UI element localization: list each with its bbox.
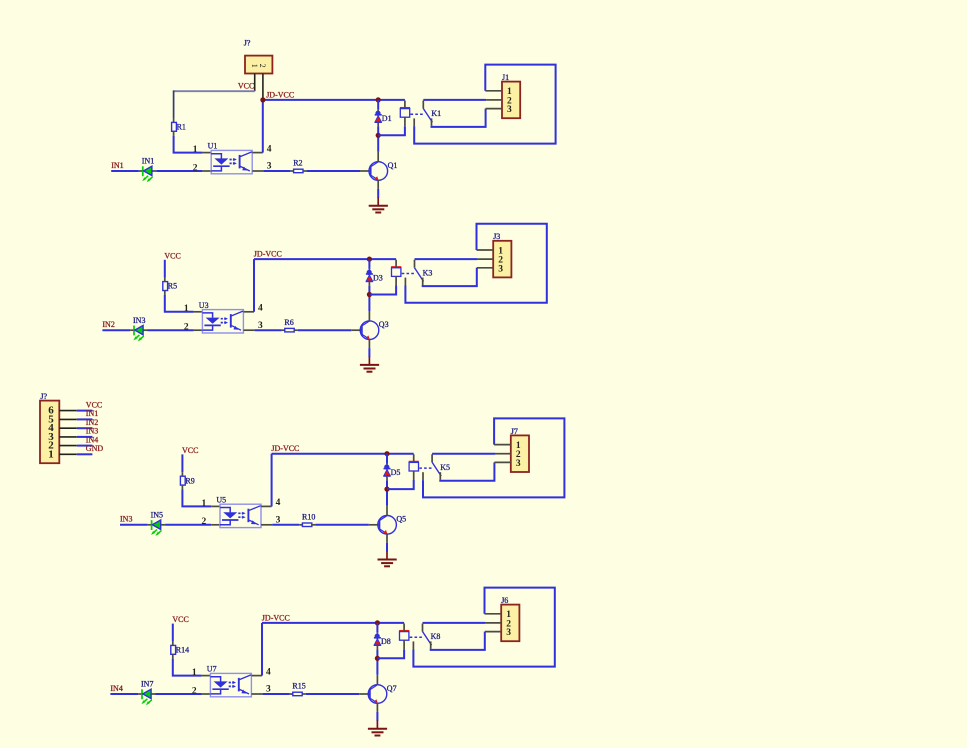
transistor Q5 bbox=[369, 506, 397, 543]
svg-text:R10: R10 bbox=[302, 513, 315, 522]
svg-text:IN3: IN3 bbox=[86, 427, 98, 436]
svg-text:1: 1 bbox=[48, 448, 54, 460]
relay K5 coil bbox=[409, 454, 419, 480]
U pin 2 stub bbox=[194, 329, 203, 331]
relay K1 switch bbox=[414, 101, 432, 127]
svg-text:1: 1 bbox=[250, 64, 259, 68]
svg-text:D1: D1 bbox=[382, 114, 392, 123]
wire IN1 input stub bbox=[111, 170, 139, 172]
ground bbox=[368, 720, 387, 735]
svg-text:D3: D3 bbox=[373, 273, 383, 282]
diode D8 bbox=[374, 623, 381, 658]
connector J3 pin 3 stub bbox=[477, 267, 493, 269]
connector J7 pin 3 stub bbox=[494, 461, 510, 463]
svg-text:J?: J? bbox=[244, 39, 251, 48]
wire VCC vertical to R bbox=[173, 90, 175, 118]
ground bbox=[360, 357, 379, 372]
wire VCC horizontal bbox=[174, 90, 255, 92]
wire pin3 to R10 bbox=[272, 524, 299, 526]
wire Q1 emitter bbox=[377, 189, 379, 198]
wire JD-VCC vertical from pin4 bbox=[262, 100, 264, 153]
svg-text:2: 2 bbox=[202, 517, 207, 527]
svg-text:K1: K1 bbox=[431, 109, 441, 118]
wire pin3 to R15 bbox=[263, 693, 290, 695]
relay K3 coil bbox=[391, 260, 401, 286]
svg-text:K3: K3 bbox=[423, 268, 433, 277]
svg-text:3: 3 bbox=[506, 628, 511, 638]
connector J? 6-pin input header bbox=[40, 401, 59, 464]
wire relay NO contact to J1 pin3 bbox=[432, 109, 486, 127]
LED IN5 bbox=[148, 520, 165, 536]
wire coil return bbox=[387, 480, 414, 489]
svg-text:J7: J7 bbox=[511, 427, 518, 436]
connector J6 bbox=[501, 605, 519, 642]
wire R9 to pin1 bbox=[182, 489, 211, 506]
wire net IN1 stub bbox=[77, 418, 93, 420]
jumper J? pin 1 lead bbox=[254, 74, 256, 92]
wire relay NC contact loop to J7 pin1 bbox=[423, 418, 564, 497]
wire IN4 input stub bbox=[110, 693, 138, 695]
wire R15 to Q7 base bbox=[306, 693, 359, 695]
svg-text:D8: D8 bbox=[381, 637, 391, 646]
svg-text:K5: K5 bbox=[440, 463, 450, 472]
wire Q7 collector bbox=[376, 658, 378, 675]
wire JD-VCC rail bbox=[254, 258, 396, 260]
connector J7 pin 2 stub bbox=[495, 453, 511, 455]
wire R14 to pin1 bbox=[173, 659, 202, 676]
wire relay NO contact to J7 pin3 bbox=[440, 462, 494, 480]
wire relay NC contact loop to J3 pin1 bbox=[405, 224, 546, 303]
wire VCC stub to R bbox=[164, 260, 166, 278]
wire net GND stub bbox=[77, 453, 93, 455]
svg-text:VCC: VCC bbox=[238, 81, 254, 90]
svg-text:IN1: IN1 bbox=[111, 161, 123, 170]
wire JD-VCC rail bbox=[263, 99, 405, 101]
svg-text:JD-VCC: JD-VCC bbox=[254, 250, 282, 259]
wire IN2 to optocoupler pin2 bbox=[148, 329, 194, 331]
relay K3 switch bbox=[405, 260, 423, 286]
svg-text:R2: R2 bbox=[293, 159, 302, 168]
jumper J? 2-pin header bbox=[245, 56, 272, 74]
svg-text:4: 4 bbox=[266, 667, 271, 677]
wire coil return bbox=[378, 126, 405, 135]
diode D5 bbox=[383, 454, 390, 489]
svg-text:K8: K8 bbox=[431, 632, 441, 641]
wire R5 to pin1 bbox=[165, 295, 194, 312]
svg-text:2: 2 bbox=[258, 64, 267, 68]
wire Q3 collector bbox=[368, 295, 370, 312]
connector J1 pin 1 stub bbox=[485, 90, 502, 92]
resistor R6 bbox=[282, 328, 298, 332]
wire relay NC contact loop to J6 pin1 bbox=[413, 588, 554, 667]
U pin 4 stub bbox=[252, 675, 263, 677]
svg-text:U5: U5 bbox=[216, 496, 226, 505]
wire pin3 to R6 bbox=[255, 329, 282, 331]
svg-text:IN4: IN4 bbox=[110, 684, 122, 693]
connector J? pin 1 lead bbox=[59, 453, 77, 455]
resistor R5 bbox=[163, 278, 168, 295]
wire relay NC contact loop to J1 pin1 bbox=[414, 65, 555, 144]
wire IN3 to optocoupler pin2 bbox=[165, 524, 211, 526]
optocoupler U3 bbox=[202, 310, 243, 333]
svg-text:IN5: IN5 bbox=[151, 510, 163, 519]
connector J3 pin 2 stub bbox=[477, 258, 493, 260]
svg-text:2: 2 bbox=[192, 686, 197, 696]
optocoupler U5 bbox=[220, 504, 261, 527]
svg-text:3: 3 bbox=[507, 105, 512, 115]
wire JD-VCC vertical from pin4 bbox=[253, 259, 255, 312]
svg-text:JD-VCC: JD-VCC bbox=[271, 444, 299, 453]
connector J3 pin 1 stub bbox=[477, 249, 494, 251]
op-to U pin 1 stub bbox=[194, 311, 203, 313]
op-to U pin 1 stub bbox=[202, 675, 211, 677]
wire coil return bbox=[369, 285, 396, 294]
connector J? pin 5 lead bbox=[59, 418, 77, 420]
svg-text:Q3: Q3 bbox=[379, 320, 389, 329]
svg-text:1: 1 bbox=[202, 499, 207, 509]
node junction JD-VCC / D5 cathode bbox=[384, 451, 389, 456]
U pin 2 stub bbox=[202, 170, 211, 172]
svg-text:R6: R6 bbox=[284, 318, 293, 327]
svg-text:GND: GND bbox=[86, 444, 104, 453]
svg-text:J?: J? bbox=[40, 392, 47, 401]
wire IN4 to optocoupler pin2 bbox=[156, 693, 202, 695]
svg-text:IN3: IN3 bbox=[120, 515, 132, 524]
svg-text:IN2: IN2 bbox=[86, 418, 98, 427]
node junction JD-VCC / D3 cathode bbox=[367, 257, 372, 262]
svg-text:U1: U1 bbox=[208, 142, 218, 151]
wire JD-VCC vertical from pin4 bbox=[271, 454, 273, 507]
wire IN2 input stub bbox=[102, 329, 130, 331]
resistor R14 bbox=[171, 641, 176, 658]
wire Q7 emitter bbox=[376, 712, 378, 721]
wire relay common to J3 pin2 bbox=[415, 258, 478, 260]
svg-text:VCC: VCC bbox=[182, 446, 198, 455]
wire net IN2 stub bbox=[77, 427, 93, 429]
svg-text:1: 1 bbox=[193, 145, 198, 155]
relay K8 coil bbox=[399, 624, 409, 650]
node junction D5 anode / coil bbox=[384, 487, 389, 492]
ground bbox=[369, 197, 388, 212]
relay K5 switch bbox=[423, 454, 441, 480]
wire VCC stub to R bbox=[172, 624, 174, 642]
svg-text:R15: R15 bbox=[292, 682, 305, 691]
wire JD-VCC rail bbox=[262, 622, 404, 624]
U pin 4 stub bbox=[252, 152, 262, 154]
wire net VCC stub bbox=[77, 410, 93, 412]
svg-text:VCC: VCC bbox=[164, 251, 180, 260]
U pin 3 stub bbox=[261, 524, 272, 526]
wire R10 to Q5 base bbox=[315, 524, 368, 526]
ground bbox=[378, 551, 397, 566]
transistor Q3 bbox=[351, 311, 379, 348]
svg-text:2: 2 bbox=[184, 323, 189, 333]
svg-text:U7: U7 bbox=[207, 665, 217, 674]
svg-text:R14: R14 bbox=[176, 646, 189, 655]
wire Q1 collector bbox=[377, 135, 379, 152]
svg-text:U3: U3 bbox=[199, 301, 209, 310]
connector J6 pin 3 stub bbox=[485, 631, 501, 633]
svg-text:VCC: VCC bbox=[172, 615, 188, 624]
svg-text:2: 2 bbox=[193, 163, 198, 173]
node junction D8 anode / coil bbox=[375, 656, 380, 661]
wire Q5 emitter bbox=[386, 543, 388, 552]
connector J? pin 6 lead bbox=[59, 410, 77, 412]
connector J7 bbox=[511, 435, 529, 472]
svg-text:J3: J3 bbox=[493, 232, 500, 241]
svg-text:IN3: IN3 bbox=[133, 316, 145, 325]
U pin 3 stub bbox=[244, 329, 255, 331]
connector J7 pin 1 stub bbox=[494, 444, 511, 446]
relay K8 actuator dashed link bbox=[410, 636, 423, 638]
LED IN1 bbox=[139, 166, 156, 182]
connector J1 bbox=[502, 82, 520, 119]
wire relay NO contact to J6 pin3 bbox=[431, 632, 485, 650]
svg-text:R5: R5 bbox=[168, 282, 177, 291]
jumper J? pin 2 lead bbox=[262, 74, 264, 98]
relay K3 actuator dashed link bbox=[402, 273, 415, 275]
connector J1 pin 2 stub bbox=[486, 99, 502, 101]
U pin 3 stub bbox=[252, 170, 263, 172]
resistor R2 bbox=[290, 169, 306, 173]
svg-text:J1: J1 bbox=[502, 73, 509, 82]
wire net IN4 stub bbox=[77, 445, 93, 447]
connector J? pin 2 lead bbox=[59, 445, 77, 447]
connector J? pin 3 lead bbox=[59, 436, 77, 438]
svg-text:D5: D5 bbox=[391, 468, 401, 477]
relay K8 switch bbox=[413, 624, 431, 650]
svg-text:R1: R1 bbox=[177, 123, 186, 132]
op-to U pin 1 stub bbox=[202, 152, 211, 154]
node junction JD-VCC tee bbox=[260, 97, 265, 102]
svg-text:Q5: Q5 bbox=[396, 515, 406, 524]
connector J1 pin 3 stub bbox=[486, 108, 502, 110]
wire IN3 input stub bbox=[120, 524, 148, 526]
wire relay common to J7 pin2 bbox=[432, 453, 495, 455]
diode D1 bbox=[375, 100, 382, 135]
node junction JD-VCC / D1 cathode bbox=[376, 97, 381, 102]
svg-text:IN1: IN1 bbox=[86, 409, 98, 418]
svg-text:1: 1 bbox=[184, 304, 189, 314]
svg-text:4: 4 bbox=[258, 304, 263, 314]
wire relay NO contact to J3 pin3 bbox=[423, 268, 477, 286]
wire pin3 to R2 bbox=[263, 170, 290, 172]
wire R1 to pin1 bbox=[174, 136, 203, 153]
relay K1 coil bbox=[400, 101, 410, 127]
U pin 4 stub bbox=[261, 505, 272, 507]
svg-text:Q7: Q7 bbox=[387, 684, 397, 693]
svg-text:Q1: Q1 bbox=[388, 161, 398, 170]
relay K5 actuator dashed link bbox=[419, 467, 432, 469]
svg-text:J6: J6 bbox=[501, 596, 508, 605]
svg-text:JD-VCC: JD-VCC bbox=[266, 90, 294, 99]
optocoupler U7 bbox=[210, 673, 251, 696]
resistor R1 bbox=[172, 118, 177, 135]
U pin 2 stub bbox=[211, 524, 220, 526]
resistor R9 bbox=[180, 472, 185, 489]
wire Q5 collector bbox=[386, 489, 388, 506]
svg-text:JD-VCC: JD-VCC bbox=[262, 613, 290, 622]
optocoupler U1 bbox=[211, 150, 252, 173]
wire net IN3 stub bbox=[77, 436, 93, 438]
svg-text:IN2: IN2 bbox=[102, 320, 114, 329]
wire relay common to J6 pin2 bbox=[423, 622, 486, 624]
svg-text:4: 4 bbox=[276, 498, 281, 508]
wire JD-VCC vertical from pin4 bbox=[261, 623, 263, 676]
node junction D3 anode / coil bbox=[367, 292, 372, 297]
connector J3 bbox=[493, 241, 511, 278]
relay K1 actuator dashed link bbox=[411, 113, 424, 115]
connector J6 pin 1 stub bbox=[485, 613, 502, 615]
wire coil return bbox=[377, 649, 404, 658]
svg-text:1: 1 bbox=[192, 668, 197, 678]
diode D3 bbox=[366, 259, 373, 294]
wire Q3 emitter bbox=[368, 348, 370, 357]
resistor R15 bbox=[290, 692, 306, 696]
wire relay common to J1 pin2 bbox=[423, 99, 486, 101]
svg-text:IN4: IN4 bbox=[86, 435, 98, 444]
wire IN1 to optocoupler pin2 bbox=[156, 170, 202, 172]
svg-text:3: 3 bbox=[498, 264, 503, 274]
LED IN3 bbox=[130, 325, 147, 341]
svg-text:R9: R9 bbox=[185, 476, 194, 485]
svg-text:IN1: IN1 bbox=[142, 157, 154, 166]
transistor Q7 bbox=[359, 675, 387, 712]
wire VCC stub to R bbox=[181, 454, 183, 472]
node junction D1 anode / coil bbox=[376, 133, 381, 138]
transistor Q1 bbox=[360, 152, 388, 189]
wire JD-VCC rail bbox=[272, 453, 414, 455]
svg-text:4: 4 bbox=[267, 144, 272, 154]
U pin 3 stub bbox=[252, 693, 263, 695]
svg-text:IN7: IN7 bbox=[141, 680, 153, 689]
resistor R10 bbox=[299, 523, 315, 527]
LED IN7 bbox=[138, 689, 155, 705]
node junction JD-VCC / D8 cathode bbox=[375, 620, 380, 625]
svg-text:3: 3 bbox=[516, 459, 521, 469]
connector J? pin 4 lead bbox=[59, 427, 77, 429]
op-to U pin 1 stub bbox=[211, 505, 220, 507]
wire R6 to Q3 base bbox=[298, 329, 351, 331]
wire R2 to Q1 base bbox=[307, 170, 360, 172]
U pin 2 stub bbox=[202, 693, 211, 695]
U pin 4 stub bbox=[244, 311, 255, 313]
svg-text:VCC: VCC bbox=[86, 400, 102, 409]
connector J6 pin 2 stub bbox=[485, 622, 501, 624]
